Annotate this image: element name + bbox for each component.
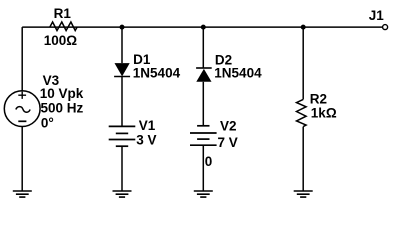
svg-text:7 V: 7 V [218, 135, 238, 150]
svg-text:0°: 0° [41, 115, 54, 130]
svg-text:R2: R2 [310, 91, 327, 106]
svg-text:0: 0 [205, 154, 213, 169]
svg-text:V1: V1 [139, 118, 156, 133]
svg-text:3 V: 3 V [136, 133, 156, 148]
svg-text:1N5404: 1N5404 [133, 65, 181, 80]
svg-text:1kΩ: 1kΩ [311, 105, 337, 120]
svg-text:R1: R1 [54, 6, 72, 21]
svg-text:V2: V2 [220, 119, 237, 134]
svg-text:500 Hz: 500 Hz [41, 101, 84, 116]
svg-text:100Ω: 100Ω [44, 33, 78, 48]
svg-text:10 Vpk: 10 Vpk [40, 86, 84, 101]
svg-text:1N5404: 1N5404 [214, 65, 262, 80]
svg-text:J1: J1 [369, 8, 385, 23]
